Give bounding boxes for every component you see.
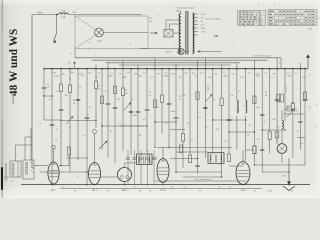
wire vertical x=70 [69, 69, 71, 85]
voltage selector cross [164, 30, 173, 38]
table large grid [268, 12, 317, 14]
svg-text:0,1: 0,1 [119, 123, 122, 125]
svg-text:0,1: 0,1 [83, 135, 86, 137]
left scan edge line [1, 0, 3, 198]
svg-text:50: 50 [131, 99, 133, 101]
IF can2 core [215, 155, 217, 163]
small box right [287, 106, 291, 111]
svg-text:0,3: 0,3 [98, 73, 101, 75]
svg-text:25: 25 [261, 115, 263, 117]
svg-text:Wechselstromkreis: Wechselstromkreis [195, 178, 212, 181]
resistor pair right b [281, 94, 284, 102]
svg-text:0,1: 0,1 [205, 127, 208, 129]
switch mains stub [56, 15, 58, 34]
wire feed lower [140, 48, 181, 50]
svg-text:50: 50 [74, 191, 76, 193]
wire vertical x=285 [284, 69, 286, 121]
svg-text:5000: 5000 [52, 73, 56, 75]
wire secondary taps [193, 13, 198, 15]
svg-text:50: 50 [229, 186, 231, 188]
wire speaker bottom [281, 153, 283, 163]
svg-text:50: 50 [150, 162, 152, 164]
IF can2 coil right [221, 154, 222, 162]
wire bottom bus main [21, 184, 310, 186]
ground main arrow [288, 158, 290, 182]
trimmer arrow 2 [124, 104, 130, 111]
svg-text:0,1A: 0,1A [61, 16, 66, 19]
wire vertical x=300.3 [299, 63, 301, 121]
wire vertical x=138 [137, 65, 139, 154]
svg-text:50: 50 [165, 123, 167, 125]
IF can1 coil left [139, 156, 140, 164]
wire vertical x=102 [101, 69, 103, 150]
trimmer arrow 5 [66, 118, 72, 125]
svg-text:0,2: 0,2 [248, 72, 251, 74]
svg-text:50: 50 [218, 187, 220, 189]
potentiometer arrow [99, 142, 106, 149]
wire vertical x=123 [122, 60, 124, 88]
wire vertical x=277.1 [276, 58, 278, 144]
svg-text:bei GW entfallen: bei GW entfallen [206, 18, 221, 21]
svg-text:6,3 V: 6,3 V [166, 51, 172, 54]
svg-text:0,1: 0,1 [239, 91, 242, 93]
svg-text:0,1: 0,1 [184, 187, 187, 189]
voltage selector S1 box [164, 30, 173, 38]
svg-text:0,1: 0,1 [57, 91, 60, 93]
wire primary top feed [176, 11, 181, 14]
svg-text:Netztransformator: Netztransformator [177, 7, 195, 10]
svg-text:0,5: 0,5 [98, 89, 101, 91]
resistor bottom a [67, 147, 70, 155]
transformer core line 1 [185, 11, 187, 55]
cap bottom d [195, 165, 199, 166]
tube V4 AC2 [157, 159, 169, 183]
resistor output [275, 132, 279, 138]
antenna coil A turns [12, 163, 15, 166]
svg-text:0,1: 0,1 [254, 191, 257, 193]
wire vertical x=183 [182, 69, 184, 134]
left scan faint streak upper [1, 30, 2, 120]
svg-text:50: 50 [179, 99, 181, 101]
svg-text:220V: 220V [268, 191, 273, 193]
wire vertical x=212.8 [212, 69, 214, 153]
lamp L1 cross [96, 30, 102, 36]
wire box-left drop [74, 49, 76, 58]
wire lamp spoke b [75, 36, 95, 49]
antenna coil box A [10, 161, 21, 177]
svg-text:25000: 25000 [163, 76, 169, 78]
svg-text:50: 50 [257, 139, 259, 141]
wire antenna lead [15, 145, 17, 161]
tube V2 AF7 [89, 163, 101, 185]
ground antenna left [4, 163, 9, 181]
wire vertical x=245.6 [245, 69, 247, 100]
lamp pilot cross [179, 49, 183, 53]
svg-text:1M: 1M [207, 89, 210, 91]
wire vertical x=292.9 [292, 69, 294, 103]
svg-text:2x2: 2x2 [124, 93, 127, 95]
junction dots on main bus [95, 68, 97, 70]
wire mains top [32, 14, 59, 16]
wires caps row stubs [127, 159, 129, 184]
tube V1 AF7 [48, 162, 59, 184]
svg-text:0,1: 0,1 [171, 186, 174, 188]
grid cap V2 [93, 130, 97, 134]
ground chevron [283, 186, 295, 191]
tube V3 top pin [124, 163, 126, 168]
wire V5 grid [242, 150, 244, 162]
svg-text:0,3: 0,3 [143, 73, 146, 75]
wire vertical x=205.4 [204, 58, 206, 107]
junction dots bus [53, 184, 55, 186]
svg-text:0,1: 0,1 [134, 186, 137, 188]
wire vertical x=131 [130, 69, 132, 112]
IF transformer can 2 [208, 153, 224, 164]
cap bottom e [260, 149, 264, 150]
wire vertical x=78 [77, 69, 79, 100]
svg-text:Netz: Netz [37, 11, 43, 15]
speaker inner [279, 146, 285, 151]
svg-text:5000: 5000 [70, 72, 74, 74]
svg-text:AC 2: AC 2 [160, 189, 166, 192]
svg-text:0,2: 0,2 [69, 127, 72, 129]
wire vertical x=52 [51, 69, 53, 185]
wire lamp right [103, 32, 148, 34]
svg-text:6 W: 6 W [282, 176, 286, 178]
svg-text:1M: 1M [216, 129, 219, 131]
antenna coil B turns [25, 162, 28, 165]
antenna arrow right [307, 57, 309, 69]
svg-text:0,3: 0,3 [301, 143, 304, 145]
wires mid interconnects [61, 119, 96, 121]
wire vertical x=190 [189, 69, 191, 155]
node mains switch [56, 14, 58, 16]
wire resistor output v [276, 138, 278, 144]
svg-text:25: 25 [79, 87, 81, 89]
svg-text:~2 V: ~2 V [97, 40, 102, 43]
node a-f [74, 62, 76, 64]
speaker circle [277, 144, 287, 154]
svg-text:0,1: 0,1 [309, 107, 312, 109]
svg-text:a-f: a-f [68, 63, 71, 65]
svg-text:0,5: 0,5 [199, 191, 202, 193]
svg-text:AF 7: AF 7 [51, 189, 57, 192]
wire bus main dark [44, 68, 308, 70]
svg-text:100: 100 [89, 72, 92, 74]
svg-text:0,1: 0,1 [107, 191, 110, 193]
svg-text:AF 7: AF 7 [92, 189, 98, 192]
svg-text:100: 100 [127, 72, 130, 74]
wire V2 grid cap [94, 134, 96, 163]
svg-text:0,5: 0,5 [111, 73, 114, 75]
transformer core line 2 [187, 11, 189, 55]
wire V4 grid [162, 147, 164, 158]
switch blade arrow [54, 33, 57, 41]
fuse Si coil [59, 13, 69, 15]
wire ant v1 [24, 137, 26, 160]
svg-text:0,1: 0,1 [225, 141, 228, 143]
svg-text:0,5: 0,5 [191, 139, 194, 141]
wire bus 4 [119, 64, 231, 66]
wire rail to coils [31, 160, 33, 168]
wire choke up [281, 110, 283, 121]
svg-text:50: 50 [139, 191, 141, 193]
tube V3 diodes [120, 176, 123, 179]
wires tube cathodes [53, 183, 55, 186]
svg-text:50: 50 [130, 162, 132, 164]
transformer T1 primary winding [179, 14, 181, 54]
svg-text:50: 50 [144, 162, 146, 164]
wire pilot to secondary [184, 51, 189, 53]
svg-text:50: 50 [55, 139, 57, 141]
wires caps row tops [127, 150, 129, 158]
wire vertical x=44 [43, 69, 45, 88]
wire vertical x=269.7 [269, 69, 271, 132]
svg-text:0,2: 0,2 [285, 91, 288, 93]
svg-text:50: 50 [213, 99, 215, 101]
svg-text:0,5: 0,5 [105, 91, 108, 93]
wire bus 1 drop [280, 58, 282, 69]
svg-text:6,3V: 6,3V [201, 14, 206, 16]
table small rows [238, 12, 266, 14]
svg-text:100: 100 [62, 74, 65, 76]
svg-text:0,9A: 0,9A [61, 10, 66, 13]
wire vertical x=236.9 [236, 63, 238, 100]
left scan black streak [1, 167, 3, 190]
svg-text:2M: 2M [209, 77, 212, 79]
svg-text:0,3: 0,3 [287, 72, 290, 74]
junction dots sprinkle [60, 120, 61, 121]
svg-text:50: 50 [139, 135, 141, 137]
svg-text:0,3: 0,3 [232, 74, 235, 76]
wire vertical x=221.6 [221, 65, 223, 98]
wire vertical x=262.2 [261, 69, 263, 115]
wire vertical x=176 [175, 63, 177, 117]
wire vertical x=162 [161, 69, 163, 95]
svg-text:220V: 220V [201, 28, 206, 30]
output choke coil [282, 121, 283, 129]
svg-text:10000: 10000 [222, 76, 228, 78]
wire vertical x=147 [146, 69, 148, 110]
svg-text:0,1: 0,1 [223, 72, 226, 74]
resistor bottom c [253, 146, 256, 154]
wire bus 3 [106, 62, 240, 64]
arrow heater line [199, 51, 222, 53]
wire vertical x=61 [60, 69, 62, 84]
dots bottom mesh [60, 165, 61, 166]
wire vertical x=305 [304, 69, 306, 165]
svg-text:GW: GW [214, 34, 219, 38]
wire lamp spoke a [75, 16, 95, 29]
wire bus 1 [75, 57, 281, 59]
wire vertical x=229 [228, 69, 230, 154]
grid cap V1 [52, 146, 55, 149]
wire vertical x=197.5 [197, 60, 199, 174]
svg-text:5000: 5000 [171, 74, 175, 76]
wire vertical x=115 [114, 69, 116, 163]
table small frame [238, 11, 266, 26]
svg-text:100: 100 [215, 73, 218, 75]
svg-text:110V: 110V [201, 31, 206, 33]
wire ant v2 [30, 128, 32, 160]
lamp L1 circle [95, 28, 104, 37]
svg-text:Nur bei GW 0,1µF: Nur bei GW 0,1µF [254, 55, 272, 58]
svg-text:0,1: 0,1 [47, 87, 50, 89]
wire vertical x=254.4 [253, 60, 255, 146]
IF can1 coil right [149, 156, 150, 164]
transformer T1 secondary winding [193, 13, 194, 53]
wire selector tap 2 [170, 24, 181, 30]
lamp pilot circle [178, 48, 184, 54]
wire a-f stub [74, 63, 76, 69]
wire mains top right [68, 14, 142, 16]
trimmer arrow 3 [287, 110, 293, 117]
svg-text:50: 50 [247, 135, 249, 137]
svg-text:0,1: 0,1 [237, 111, 240, 113]
svg-text:50: 50 [73, 103, 75, 105]
svg-text:50: 50 [149, 191, 151, 193]
svg-text:0,1: 0,1 [62, 186, 65, 188]
svg-text:AB 2: AB 2 [122, 189, 128, 192]
antenna coil A wire [17, 161, 19, 177]
wire vertical x=155 [154, 58, 156, 148]
trimmer arrow 4 [205, 96, 211, 103]
IF can2 coil left [210, 154, 211, 162]
wire vertical x=96 [95, 65, 97, 81]
wire selector right [173, 32, 181, 34]
resistor bottom b [179, 145, 182, 153]
wire selector tap 1 [166, 20, 181, 30]
wire bottom bus 3 [155, 180, 246, 182]
svg-text:0,5M: 0,5M [122, 77, 127, 79]
wire bottom bus 2 [60, 187, 262, 189]
wire ant h [25, 136, 32, 138]
IF transformer can 1 [137, 154, 153, 165]
caps row bottom [126, 158, 130, 159]
arrow feed marker [150, 32, 156, 34]
svg-text:48 W und WS: 48 W und WS [8, 29, 20, 96]
svg-text:0,1: 0,1 [157, 107, 160, 109]
wire speaker top [281, 130, 283, 144]
tube V3 AB2 circle [118, 168, 132, 182]
svg-text:0,1: 0,1 [295, 73, 298, 75]
resistor pair right a [277, 94, 280, 102]
svg-text:0,3: 0,3 [265, 73, 268, 75]
wire vertical x=108 [107, 63, 109, 103]
antenna coil B hatch [31, 162, 34, 173]
tick marks sprinkle [47, 83, 49, 85]
wire left rail vertical [31, 15, 33, 161]
svg-text:1M: 1M [117, 99, 120, 101]
capacitors sprinkle [59, 109, 64, 110]
svg-text:AL 4: AL 4 [241, 189, 246, 192]
svg-text:50: 50 [265, 95, 267, 97]
wire V1 grid cap [53, 149, 55, 162]
table large frame [268, 10, 317, 26]
svg-text:1M: 1M [95, 77, 98, 79]
resistors sprinkle [100, 96, 103, 104]
wires bottom mesh [157, 146, 232, 148]
tube V5 AL4 [236, 162, 250, 185]
antenna coil box B [23, 160, 34, 179]
svg-text:50: 50 [200, 73, 202, 75]
svg-text:0,1: 0,1 [277, 127, 280, 129]
svg-text:0,1: 0,1 [149, 95, 152, 97]
svg-text:GW: GW [72, 12, 76, 14]
wire vertical x=87 [86, 69, 88, 185]
svg-text:50: 50 [287, 107, 289, 109]
wire vertical x=169 [168, 69, 170, 148]
svg-text:2M: 2M [65, 95, 68, 97]
IF can1 core [144, 156, 146, 164]
svg-text:50: 50 [291, 191, 293, 193]
wire bus 2 [92, 59, 268, 61]
box dial lamp frame [75, 16, 148, 49]
svg-text:50: 50 [165, 72, 167, 74]
